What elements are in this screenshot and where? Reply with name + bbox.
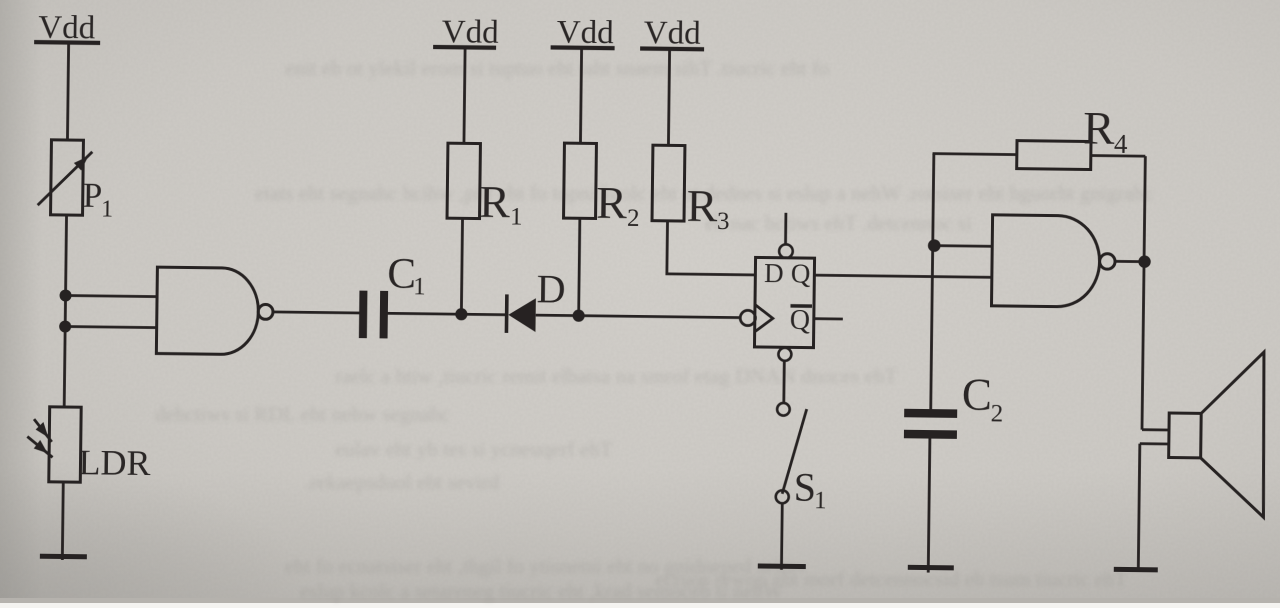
svg-text:R: R [1083, 102, 1116, 154]
svg-text:enit eb ot ylekil erom si tupt: enit eb ot ylekil erom si tuptuo eht tah… [285, 56, 829, 80]
svg-text:dehctiws si RDL eht nehw segna: dehctiws si RDL eht nehw segnahc [155, 402, 450, 426]
svg-text:Q: Q [791, 258, 811, 288]
svg-text:3: 3 [717, 208, 730, 235]
ground (S1) [758, 563, 806, 569]
node F junction dot [1138, 255, 1151, 268]
wire Vdd3 to R2 [580, 48, 581, 143]
node A junction dot [59, 289, 71, 301]
speaker LS1 [1168, 351, 1266, 517]
U2 clock bubble [740, 310, 755, 325]
U2 reset pin circle [778, 348, 791, 361]
ground (left) [40, 554, 87, 560]
svg-text:.rekaepsduol eht sevird: .rekaepsduol eht sevird [305, 470, 500, 494]
wire node E to U3 input 1 [933, 244, 992, 248]
ground (C2) [908, 565, 954, 571]
NAND gate U1 [156, 267, 259, 355]
NAND gate U3 [991, 215, 1100, 307]
wire P1 to LDR input rail [64, 215, 66, 407]
wire R1 to node C [461, 218, 462, 314]
wire speaker to ground [1138, 444, 1140, 572]
svg-text:D: D [536, 266, 565, 311]
capacitor C1 [359, 250, 426, 339]
power rail Vdd3 [551, 14, 615, 51]
ground (speaker) [1114, 567, 1158, 573]
svg-text:R: R [596, 177, 628, 228]
potentiometer P1 [37, 140, 113, 223]
wire Vdd1 to P1 [67, 43, 68, 140]
wire node B to NAND U1 input 2 [65, 327, 156, 328]
svg-text:C: C [387, 250, 416, 297]
wire speaker bottom stub [1140, 442, 1169, 445]
wire diode to FF clock (main bus) [536, 315, 741, 318]
svg-text:raelc a htiw ,tiucric remit el: raelc a htiw ,tiucric remit elbatsa na s… [335, 364, 897, 388]
svg-text:2: 2 [991, 400, 1004, 427]
svg-text:1: 1 [413, 273, 426, 300]
node B junction dot [59, 320, 71, 332]
svg-text:eulav eht yb tes si ycneuqerf: eulav eht yb tes si ycneuqerf ehT [335, 437, 613, 461]
switch S1 [776, 403, 828, 514]
resistor R4 [1017, 102, 1129, 170]
svg-text:R: R [686, 180, 718, 231]
svg-text:1: 1 [510, 203, 523, 230]
svg-text:S: S [793, 464, 816, 509]
svg-text:R: R [479, 176, 511, 227]
wire R3 to U2 D input [667, 221, 756, 275]
wire feedback rail (R4/C2 to U3 input 1) [931, 154, 934, 409]
wire speaker top stub [1142, 428, 1169, 431]
node D junction dot [572, 310, 584, 322]
svg-text:P: P [83, 176, 103, 215]
power rail Vdd4 [640, 15, 704, 52]
U2 set pin circle [779, 244, 793, 258]
U3 output bubble [1100, 254, 1116, 270]
resistor R1 [447, 143, 524, 230]
wire Vdd4 to R3 [668, 49, 669, 145]
wire U1 output to C1 [273, 312, 359, 313]
node C junction dot [455, 308, 467, 320]
power rail Vdd2 [433, 14, 499, 51]
LDR photoresistor [27, 407, 151, 484]
wire R2 to node D [579, 218, 580, 315]
svg-text:1: 1 [814, 487, 827, 514]
svg-text:C: C [962, 369, 993, 419]
diode D [506, 266, 565, 334]
svg-text:D: D [764, 258, 784, 288]
wire S1 to ground [780, 503, 784, 570]
svg-text:LDR: LDR [78, 442, 150, 483]
wire node F down to speaker [1142, 262, 1144, 430]
wire U3 output to node F [1115, 260, 1144, 263]
wire set pin stub [784, 213, 787, 245]
wire U2 Q output to U3 input 2 [814, 275, 991, 277]
wire C1 to diode D (main bus) [388, 313, 507, 314]
svg-text:2: 2 [627, 205, 640, 232]
svg-text:eslup kcolc a setareneg tiucri: eslup kcolc a setareneg tiucric eht ,kra… [300, 579, 783, 603]
wire rail to R4 left [933, 154, 1017, 155]
wire LDR to ground [61, 482, 65, 560]
svg-text:Q: Q [790, 305, 811, 336]
wire U2 reset to S1 [782, 361, 785, 403]
wire output rail down [1144, 156, 1145, 261]
power rail Vdd1 [34, 10, 100, 47]
wire R4 right to output rail [1091, 154, 1145, 157]
wire C2 to ground [928, 439, 930, 573]
resistor R2 [563, 143, 640, 232]
svg-text:Vdd: Vdd [644, 15, 702, 52]
wire node A to NAND U1 input 1 [66, 296, 157, 297]
D flip-flop U2 [754, 257, 814, 347]
resistor R3 [652, 145, 731, 235]
capacitor C2 [904, 369, 1004, 440]
U2 Qbar output stub [814, 317, 843, 320]
svg-text:1: 1 [101, 196, 113, 222]
node E junction dot [928, 239, 941, 252]
wire Vdd2 to R1 [464, 47, 465, 143]
U1 output bubble [258, 304, 273, 319]
